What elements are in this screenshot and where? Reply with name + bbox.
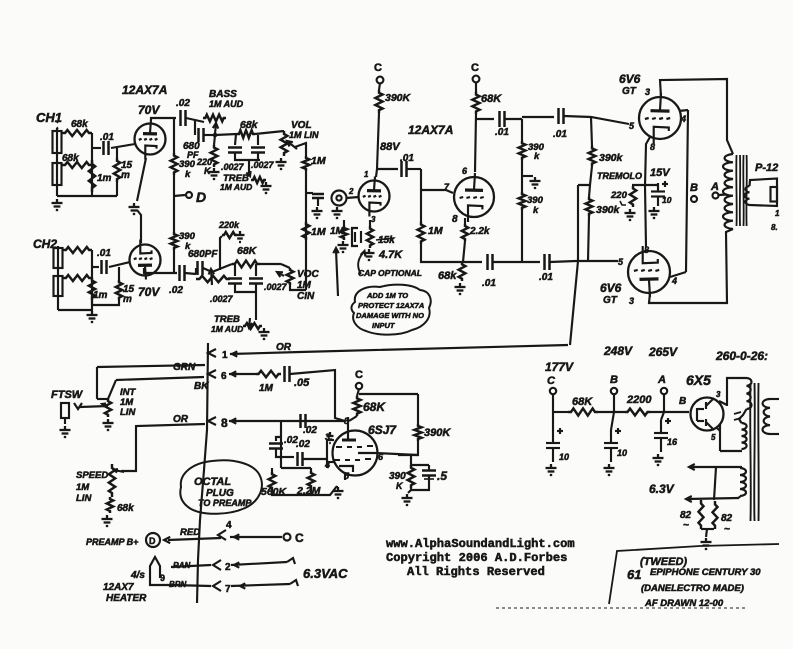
ground speed <box>106 515 108 519</box>
svg-text:15V: 15V <box>650 167 671 179</box>
svg-text:FTSW: FTSW <box>51 389 84 401</box>
svg-text:VOC: VOC <box>297 269 319 280</box>
svg-text:1M LIN: 1M LIN <box>289 130 319 140</box>
svg-text:.0027: .0027 <box>210 294 234 304</box>
capacitor mix <box>312 193 324 196</box>
svg-text:70V: 70V <box>138 285 160 299</box>
wire 390K to D node <box>173 175 175 196</box>
svg-text:8: 8 <box>644 245 649 255</box>
potentiometer VOL CH1 <box>281 131 288 156</box>
wire CH2 jack vertical <box>57 246 59 310</box>
ground 220 <box>629 209 631 213</box>
wire V1a grid <box>134 143 136 145</box>
wire pin6 to 390 <box>410 455 412 465</box>
svg-text:CIN: CIN <box>297 291 315 302</box>
wire pin2 heater <box>171 565 211 567</box>
ground TREB CH1 <box>265 182 267 186</box>
wire V1a cathode <box>137 158 146 201</box>
wire top coupling bus <box>476 118 494 120</box>
resistor 68k CH1 lower <box>62 162 92 168</box>
ground oscillator <box>406 494 408 498</box>
wire V2a plate <box>376 113 379 177</box>
wire 6V6 cathodes <box>645 137 650 247</box>
svg-text:6V6: 6V6 <box>600 281 622 295</box>
wire plug6 arrow <box>229 373 256 375</box>
wire bottom bus left <box>440 261 482 263</box>
svg-text:10: 10 <box>559 452 569 462</box>
svg-text:1: 1 <box>364 170 369 179</box>
wire screens vertical <box>686 110 688 272</box>
CH2 jack contact upper <box>54 248 63 268</box>
footswitch jack <box>61 403 69 418</box>
svg-text:(DANELECTRO MADE): (DANELECTRO MADE) <box>641 583 744 594</box>
wire tremolo to plug <box>570 261 578 345</box>
svg-text:8: 8 <box>221 416 228 430</box>
wire grid net left <box>281 420 300 422</box>
resistor 68K V2b plate <box>475 82 477 92</box>
svg-text:SPEED: SPEED <box>76 470 108 481</box>
wire jack to V2a grid <box>346 197 359 198</box>
potentiometer BASS CH2 <box>196 276 230 282</box>
svg-text:560K: 560K <box>261 486 288 498</box>
wire D node down <box>173 196 175 232</box>
wire mix tap to cap <box>306 192 313 194</box>
wire V1b cathode up <box>137 210 141 243</box>
wire CH2 tone net <box>212 264 232 272</box>
svg-text:680PF: 680PF <box>188 249 218 260</box>
ground hum balance <box>705 538 707 542</box>
svg-text:61: 61 <box>627 567 641 582</box>
ground footswitch <box>64 426 66 430</box>
svg-text:2: 2 <box>225 562 231 573</box>
wire tremolo junction down <box>577 185 579 261</box>
wire divider to bus <box>521 210 523 262</box>
tube V4 6V6 lower <box>628 251 670 293</box>
note box outline <box>609 544 779 604</box>
svg-text:.0027: .0027 <box>221 162 245 172</box>
cathode network V2a: resistor 4.7K <box>369 220 371 226</box>
wire mix vertical <box>305 171 307 252</box>
resistor 390k tremolo upper <box>589 146 596 166</box>
svg-text:2: 2 <box>348 187 354 196</box>
svg-text:68K: 68K <box>237 245 258 257</box>
svg-text:www.AlphaSoundandLight.com: www.AlphaSoundandLight.com <box>386 537 575 551</box>
svg-text:1M AUD: 1M AUD <box>220 182 252 192</box>
wire plate supply vertical <box>173 118 175 153</box>
svg-text:PREAMP B+: PREAMP B+ <box>86 537 139 547</box>
power transformer HV winding lower <box>739 419 742 423</box>
svg-text:6SJ7: 6SJ7 <box>368 423 397 437</box>
svg-text:177V: 177V <box>545 360 574 374</box>
svg-text:D: D <box>149 536 156 546</box>
svg-text:12AX7A: 12AX7A <box>408 123 453 137</box>
svg-text:1M: 1M <box>330 226 345 237</box>
wire C to rail <box>552 394 554 412</box>
svg-text:C: C <box>374 62 382 74</box>
wire pin4 to net <box>327 461 334 463</box>
wire 390k lower to bus <box>588 216 589 261</box>
svg-text:.5: .5 <box>437 469 447 483</box>
resistor 390 K oscillator <box>408 465 415 488</box>
svg-text:LIN: LIN <box>120 407 136 418</box>
tube V3 6V6 upper <box>639 97 681 139</box>
svg-text:B: B <box>610 374 618 386</box>
capacitor .5 oscillator <box>411 464 429 466</box>
svg-text:68K: 68K <box>572 396 593 408</box>
wire V2b plate <box>475 114 476 172</box>
svg-text:.01: .01 <box>97 248 111 259</box>
svg-text:220k: 220k <box>218 220 240 230</box>
speaker wires <box>750 179 778 207</box>
svg-text:6V6: 6V6 <box>619 72 641 86</box>
wire bus to junction <box>505 118 522 120</box>
resistor 1M mix upper <box>303 156 310 171</box>
svg-text:15k: 15k <box>378 235 395 246</box>
arrow cap optional <box>358 252 364 274</box>
svg-text:16: 16 <box>667 437 678 447</box>
wire bass node to 68k <box>215 134 237 135</box>
ground filter cap 1 <box>550 464 552 468</box>
resistor 1M V2a grid <box>343 220 345 226</box>
dashed separator <box>496 607 746 609</box>
svg-text:12AX7A: 12AX7A <box>122 83 167 97</box>
resistor 68k V2b <box>459 262 466 281</box>
wire cathode tee <box>632 184 658 186</box>
resistor 2.2M osc <box>310 468 312 471</box>
wire 390K to screen <box>398 441 418 455</box>
ground divider mid <box>522 175 533 177</box>
svg-text:7: 7 <box>225 584 231 595</box>
svg-text:1m: 1m <box>93 290 108 301</box>
balloon OCTAL PLUG TO PREAMP <box>180 460 262 514</box>
resistor 390k divider upper <box>519 141 526 160</box>
resistor 15m CH2 <box>118 267 120 280</box>
wire 1M to bus <box>421 244 440 262</box>
capacitor .02 grid top <box>300 420 345 422</box>
svg-text:.01: .01 <box>539 272 553 283</box>
wire B to rail <box>613 394 615 412</box>
plug pin 8 chevron <box>208 417 216 425</box>
wire grid to pin3 <box>327 439 334 441</box>
wire coupling down <box>420 169 422 222</box>
capacitor .01 bottom-left <box>486 254 489 270</box>
wire GRN <box>97 365 205 367</box>
resistor 68K supply <box>568 408 598 415</box>
tube V5 6X5 rectifier <box>691 398 724 431</box>
resistor 68k CH1 upper <box>62 130 92 136</box>
wire 6X5 plate top <box>719 401 727 405</box>
wire 390K V1b to plate <box>173 250 175 273</box>
capacitor bypass V2a (bracket) <box>352 228 358 246</box>
svg-text:ADD 1M TO: ADD 1M TO <box>366 291 408 300</box>
plug pin 2 chevron <box>213 560 221 570</box>
wire CH2 bottom bus <box>91 300 93 305</box>
output transformer core <box>735 155 737 226</box>
resistor 390K V1a plate <box>171 153 178 175</box>
tube V1a 12AX7 section <box>135 124 166 155</box>
svg-text:OR: OR <box>276 342 292 353</box>
svg-text:AF DRAWN 12-00: AF DRAWN 12-00 <box>644 598 724 609</box>
svg-text:12AX7: 12AX7 <box>103 582 134 593</box>
wire .05 to grid net <box>290 370 345 421</box>
svg-text:GT: GT <box>622 86 637 97</box>
svg-text:k: k <box>533 205 539 216</box>
svg-text:BK: BK <box>194 381 209 392</box>
svg-text:.01: .01 <box>553 129 567 140</box>
svg-text:1M: 1M <box>428 225 443 237</box>
wire loop right down <box>417 394 419 424</box>
svg-text:1M: 1M <box>76 482 90 493</box>
tube V1b 12AX7 section <box>130 245 161 276</box>
svg-text:10: 10 <box>617 448 627 458</box>
wire grid vertical <box>280 421 282 468</box>
resistor 2.2k V2b cathode <box>464 218 466 224</box>
svg-text:P-12: P-12 <box>755 162 778 174</box>
svg-text:~: ~ <box>683 520 689 531</box>
resistor 390K V2a plate <box>379 83 380 90</box>
resistor 2200 supply <box>625 409 650 416</box>
power transformer HV center tap <box>739 409 747 419</box>
wire 68k to vol <box>255 131 284 134</box>
svg-text:A: A <box>657 374 666 386</box>
tube V2a 12AX7 section <box>359 181 390 212</box>
resistor 390K feedback <box>414 424 421 441</box>
capacitor .0027 CH2 right <box>255 264 257 276</box>
wire to V2b grid <box>421 190 453 193</box>
svg-text:TREMOLO: TREMOLO <box>597 171 642 181</box>
svg-text:68K: 68K <box>363 400 386 414</box>
svg-text:70V: 70V <box>138 103 160 117</box>
filter cap 10uF mid <box>611 412 614 430</box>
wire V3 plate loop <box>660 79 733 154</box>
svg-text:.05: .05 <box>294 377 310 389</box>
ground 68k V2b <box>459 283 461 287</box>
wire rail left <box>553 411 568 413</box>
svg-text:9: 9 <box>160 573 165 583</box>
ground filter cap 2 <box>608 464 610 468</box>
ground CH2 jack <box>91 311 93 315</box>
wire divider mid <box>521 160 523 192</box>
svg-text:10: 10 <box>662 195 672 205</box>
svg-text:1: 1 <box>222 350 228 361</box>
CH1 jack contact lower <box>53 163 62 185</box>
wire pin4 to C <box>230 536 282 538</box>
terminal D circled <box>146 533 160 547</box>
svg-text:1M: 1M <box>311 155 326 167</box>
capacitor .01 top-right <box>522 116 554 118</box>
svg-text:68K: 68K <box>481 93 502 105</box>
svg-text:3: 3 <box>645 87 650 97</box>
octal plug cable line <box>197 343 208 603</box>
svg-text:.01: .01 <box>100 132 114 143</box>
wire INT top right <box>108 380 116 399</box>
potentiometer INT <box>96 367 98 399</box>
svg-text:A: A <box>710 181 719 193</box>
ground INT <box>107 419 109 423</box>
wire V1a plate to .02 <box>151 118 176 120</box>
svg-text:LIN: LIN <box>76 493 92 504</box>
resistor 390k tremolo lower <box>589 185 590 197</box>
svg-text:265V: 265V <box>648 345 678 359</box>
capacitor .0027 CH1 left <box>235 134 236 145</box>
svg-text:1M AUD: 1M AUD <box>211 324 243 334</box>
svg-text:3: 3 <box>716 390 721 399</box>
svg-text:.02: .02 <box>303 425 317 436</box>
resistor 390K V1b plate shared <box>171 232 178 250</box>
stray mark <box>56 121 58 123</box>
wire osc bottom join <box>272 488 311 495</box>
resistor 68k CH2 lower <box>63 275 92 281</box>
wire grid bottom net <box>281 467 311 469</box>
svg-text:PROTECT 12AX7A: PROTECT 12AX7A <box>358 301 424 310</box>
wire plug1 to tremolo <box>230 345 568 354</box>
svg-text:390k: 390k <box>596 204 621 216</box>
wire 6SJ7 pin6 <box>376 453 418 455</box>
wire OR to speed pot <box>121 424 205 471</box>
svg-text:8: 8 <box>650 142 655 152</box>
jack mix input <box>332 191 347 206</box>
wire V4 screen <box>670 272 686 277</box>
svg-text:390k: 390k <box>599 152 624 164</box>
wire osc bottom to ground <box>336 486 338 487</box>
svg-text:220: 220 <box>610 190 628 201</box>
wire bus to 6V6 grid <box>564 116 629 124</box>
plug pin 4 chevron <box>218 530 226 540</box>
svg-text:88V: 88V <box>380 141 401 153</box>
plug pin 1 chevron <box>208 349 216 357</box>
svg-text:m: m <box>121 170 130 181</box>
wire pin7 heater <box>171 585 211 586</box>
wire 6X5 plate bottom <box>716 427 720 431</box>
svg-text:HEATER: HEATER <box>106 593 147 604</box>
svg-text:.02: .02 <box>176 98 190 109</box>
arrow add-1M note <box>336 250 338 296</box>
wire V3 screen to rail <box>679 110 688 111</box>
output transformer primary <box>723 154 733 229</box>
wire bottom bus right <box>550 261 618 262</box>
capacitor .0027 CH2 left <box>234 264 236 276</box>
svg-text:68k: 68k <box>71 119 88 130</box>
svg-text:~: ~ <box>724 524 730 535</box>
wire A to rail <box>663 394 665 412</box>
resistor 1M V2b grid <box>418 222 425 244</box>
plug pin 6 chevron <box>208 370 216 378</box>
output transformer secondary <box>745 186 750 205</box>
svg-text:1M: 1M <box>311 226 326 238</box>
svg-text:248V: 248V <box>603 344 633 358</box>
ground VOL CH1 wiper <box>280 158 282 162</box>
resistor 1M CH1 <box>89 160 95 192</box>
ground cathode cap <box>653 207 655 211</box>
svg-text:390K: 390K <box>424 427 451 439</box>
svg-text:B: B <box>679 396 686 407</box>
ground mix cap <box>316 207 318 211</box>
wire heater center tap <box>714 467 716 500</box>
potentiometer BASS <box>203 115 226 122</box>
ground CH1 jack <box>56 199 58 203</box>
wire RED arrow <box>168 538 221 540</box>
ground osc bottom <box>337 487 339 491</box>
terminal D preamp supply <box>174 195 185 196</box>
svg-text:68k: 68k <box>62 153 79 164</box>
svg-text:EPIPHONE CENTURY 30: EPIPHONE CENTURY 30 <box>650 567 761 578</box>
resistor 560K osc <box>271 468 273 472</box>
filter cap 16uF out <box>661 412 664 420</box>
CH2 jack contact lower <box>54 276 63 296</box>
tube V6 6SJ7 <box>333 431 378 476</box>
svg-text:4: 4 <box>680 114 686 124</box>
wire cathode to 68k <box>463 241 465 262</box>
wire 390k divider vertical <box>521 119 523 141</box>
svg-text:260-0-26:: 260-0-26: <box>715 349 768 363</box>
svg-text:All Rights Reserved: All Rights Reserved <box>407 565 545 579</box>
svg-text:4: 4 <box>226 520 232 531</box>
svg-text:2.2k: 2.2k <box>469 226 490 237</box>
svg-text:C: C <box>471 62 479 74</box>
svg-text:.01: .01 <box>482 278 496 289</box>
capacitor .01 top-left <box>498 111 501 127</box>
heater winding 6.3V <box>690 466 742 468</box>
svg-text:3: 3 <box>371 215 376 224</box>
svg-text:6: 6 <box>221 371 227 382</box>
wire bottom bus mid <box>493 261 540 263</box>
svg-text:TO PREAMP: TO PREAMP <box>198 498 252 508</box>
resistor 68k speed <box>107 497 113 513</box>
resistor 220K CH1 <box>214 135 215 145</box>
wire 68K to loop <box>359 393 418 395</box>
CH1 jack contact upper <box>53 131 62 153</box>
ground mix jack <box>336 207 338 211</box>
svg-text:68k: 68k <box>117 503 134 514</box>
plug pin 7 chevron <box>213 581 221 591</box>
svg-text:CAP OPTIONAL: CAP OPTIONAL <box>358 268 422 278</box>
svg-text:6.3VAC: 6.3VAC <box>303 566 348 581</box>
svg-text:GT: GT <box>603 295 618 306</box>
capacitor .02 lower <box>281 456 294 458</box>
resistor 82 right <box>713 501 718 529</box>
svg-text:.01: .01 <box>495 127 509 138</box>
svg-text:OR: OR <box>173 414 189 425</box>
wire BK <box>116 377 204 380</box>
balloon ADD 1M note <box>351 285 430 335</box>
svg-text:82: 82 <box>721 513 733 524</box>
svg-text:DAMAGE WITH NO: DAMAGE WITH NO <box>356 311 424 320</box>
speaker <box>771 187 778 202</box>
ground V2a cathode <box>368 249 370 253</box>
svg-text:8.: 8. <box>771 223 778 232</box>
ground TREB CH2 <box>263 328 265 332</box>
wire rail right <box>650 411 689 413</box>
wire CH1 jack vertical <box>56 128 58 196</box>
resistor 1M mix lower <box>303 222 310 240</box>
wire CH2 grid bus <box>58 250 92 310</box>
svg-text:GRN: GRN <box>173 362 196 373</box>
ground filter cap 3 <box>657 454 659 458</box>
tube V2b 12AX7 section <box>454 177 494 217</box>
svg-text:1M AUD: 1M AUD <box>209 99 244 109</box>
power transformer primary <box>763 399 770 434</box>
potentiometer VOL CH2 <box>281 264 290 268</box>
svg-text:D: D <box>196 189 206 205</box>
ground V1a cathode <box>133 203 135 207</box>
wire CH1 grid bus <box>57 133 92 196</box>
resistor 1M CH2 <box>89 278 95 300</box>
resistor 15m CH1 <box>116 148 118 158</box>
resistor 1M plug6 <box>256 371 281 377</box>
svg-text:68k: 68k <box>438 270 457 282</box>
ground 220K <box>213 168 215 172</box>
svg-text:k: k <box>534 151 540 162</box>
